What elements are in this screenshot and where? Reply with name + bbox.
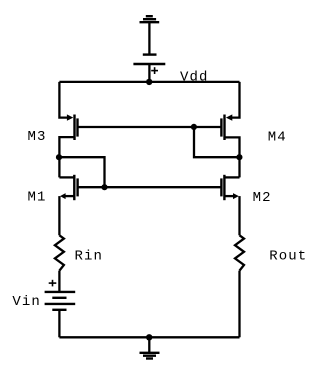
svg-text:M2: M2 <box>253 190 272 206</box>
wire M4 drain stub <box>225 137 240 177</box>
junction on Vdd rail <box>146 79 152 85</box>
svg-text:Vdd: Vdd <box>180 70 209 86</box>
svg-text:M3: M3 <box>28 129 47 145</box>
wire M3 drain stub <box>59 137 74 177</box>
wire M1 drain stub <box>59 176 74 178</box>
wire M2 drain stub <box>224 176 239 178</box>
wire M2 source stub <box>224 195 233 197</box>
wire Vdd rail <box>59 81 239 83</box>
transistor M2 source arrow <box>233 193 239 199</box>
wire ground stem <box>148 337 150 353</box>
wire Rout to bottom rail <box>238 271 240 338</box>
junction on gate line at M1 tap <box>101 184 107 190</box>
transistor M3 source arrow <box>67 114 73 120</box>
wire tap from left drain node to gate line <box>59 157 105 187</box>
transistor M3 <box>75 115 78 141</box>
ground (bottom) <box>140 353 160 359</box>
resistor Rin <box>55 235 64 270</box>
wire from battery to Vdd rail <box>148 64 150 82</box>
junction on gate line at M4 tap <box>191 124 197 130</box>
wire Vin battery to bottom rail <box>58 310 60 338</box>
wire M1 source stub <box>65 195 75 197</box>
wire Vdd rail to M4 source <box>232 82 240 118</box>
battery Vin <box>45 292 76 310</box>
svg-text:Vin: Vin <box>12 294 41 310</box>
transistor M4 <box>221 115 224 141</box>
wire from top ground to battery <box>148 22 150 54</box>
transistor M2 <box>221 175 224 200</box>
wire Rin to Vin battery <box>58 271 60 292</box>
wire tap from gate line down to M4 drain node <box>194 127 240 157</box>
svg-text:M1: M1 <box>28 189 47 205</box>
wire gate line M1 to M2 <box>78 186 221 188</box>
wire bottom rail <box>59 336 239 338</box>
wire M1 source down to Rin <box>58 196 60 235</box>
junction bottom rail to ground <box>146 334 152 340</box>
junction M4 drain / M2 drain node <box>236 154 242 160</box>
wire M2 source down to Rout <box>238 196 240 235</box>
ground (top) <box>140 16 160 22</box>
transistor M1 <box>74 175 77 200</box>
transistor M1 source arrow <box>60 193 66 199</box>
resistor Rout <box>235 235 244 270</box>
battery Vdd source <box>133 55 165 64</box>
svg-text:M4: M4 <box>268 130 287 146</box>
junction M3 drain / M1 drain / gate tap <box>56 154 62 160</box>
transistor M4 source arrow <box>226 114 232 120</box>
svg-text:Rin: Rin <box>75 249 104 265</box>
svg-text:Rout: Rout <box>269 248 307 264</box>
plus sign of Vdd battery <box>151 67 158 74</box>
plus sign of Vin battery <box>49 280 57 287</box>
wire gate line M3 to M4 <box>78 126 221 128</box>
wire Vdd rail to M3 source <box>59 82 67 118</box>
